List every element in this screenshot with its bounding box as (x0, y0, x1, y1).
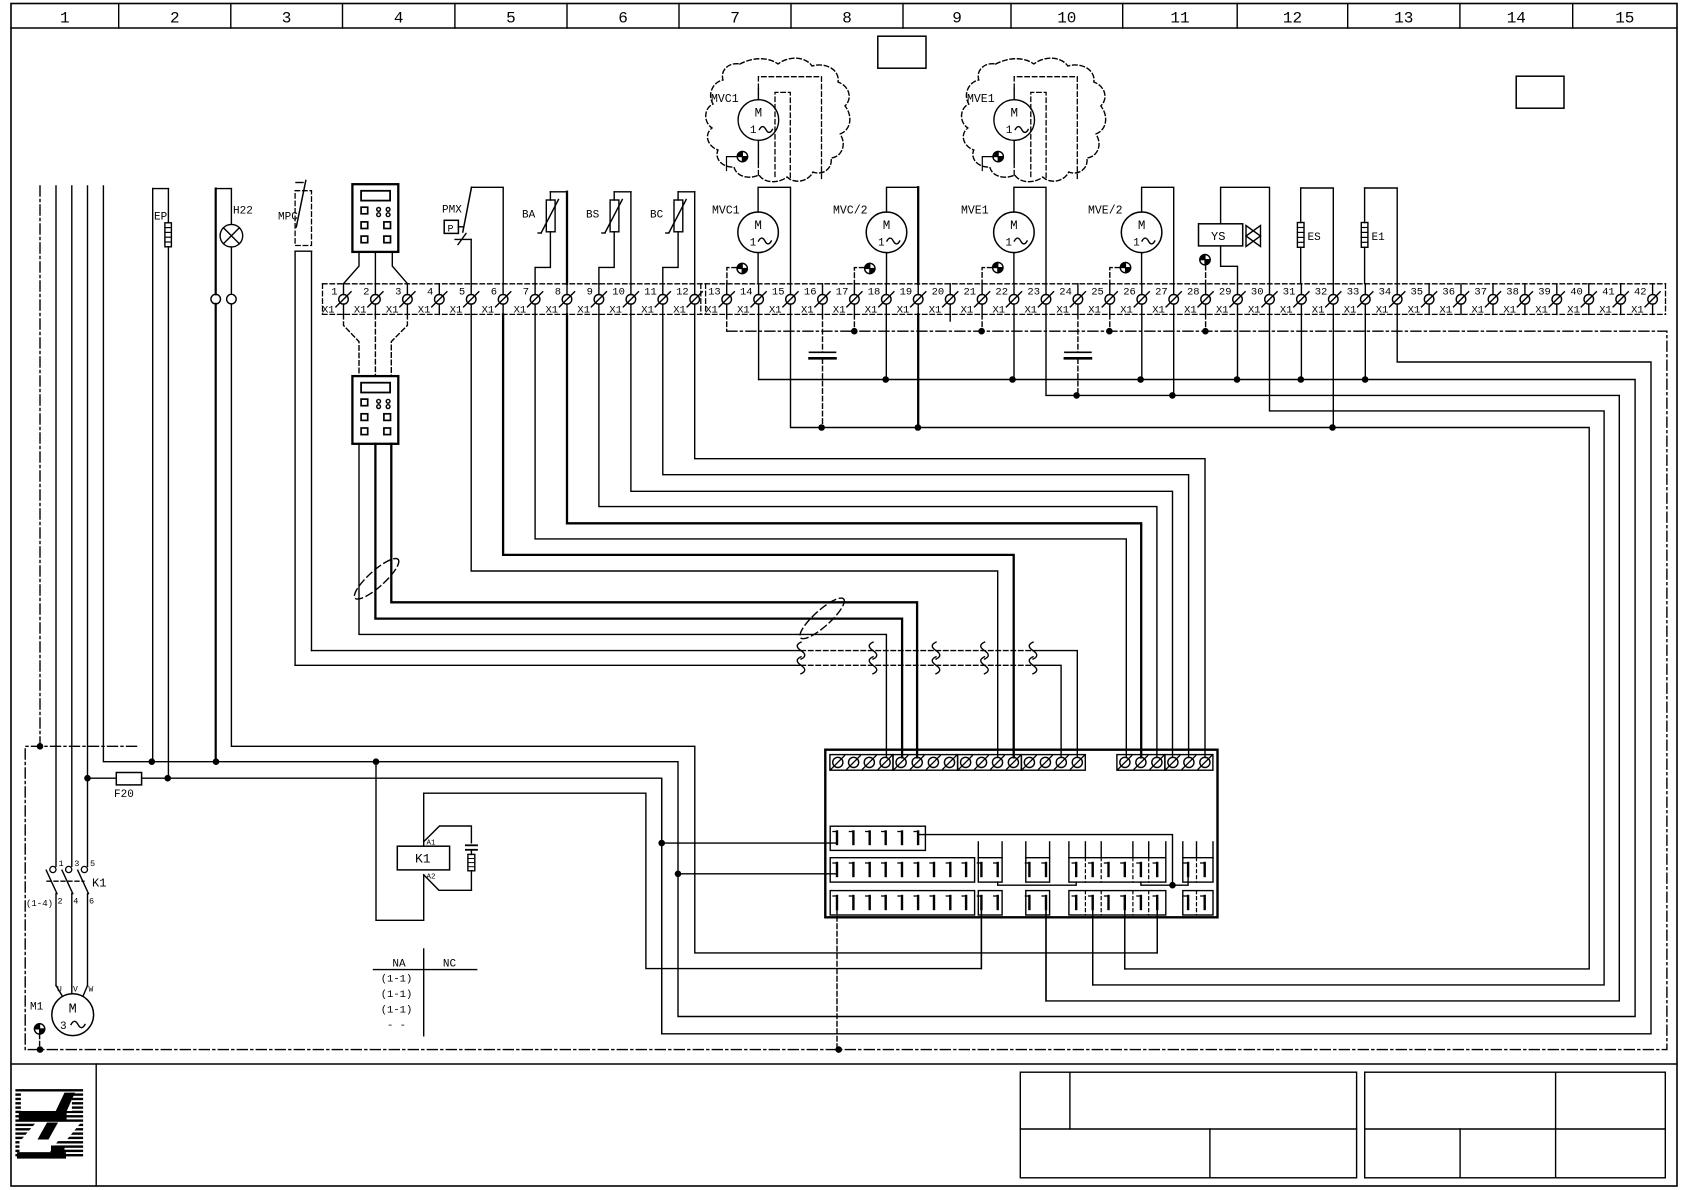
svg-text:X1: X1 (1248, 305, 1261, 317)
svg-text:1: 1 (1133, 237, 1140, 249)
svg-text:37: 37 (1474, 287, 1487, 299)
svg-text:10: 10 (1057, 10, 1076, 28)
svg-text:X1: X1 (1088, 305, 1101, 317)
svg-text:21: 21 (963, 287, 976, 299)
svg-text:13: 13 (1394, 10, 1413, 28)
svg-text:X1: X1 (641, 305, 654, 317)
svg-text:K1: K1 (415, 852, 431, 867)
svg-text:X1: X1 (1567, 305, 1580, 317)
svg-text:X1: X1 (418, 305, 431, 317)
svg-text:X1: X1 (769, 305, 782, 317)
svg-text:MVE1: MVE1 (961, 205, 989, 218)
svg-text:X1: X1 (833, 305, 846, 317)
svg-text:(1-4): (1-4) (26, 899, 53, 909)
svg-text:MVC1: MVC1 (712, 205, 740, 218)
svg-text:3: 3 (282, 10, 292, 28)
svg-text:36: 36 (1442, 287, 1455, 299)
svg-text:X1: X1 (961, 305, 974, 317)
svg-text:X1: X1 (354, 305, 367, 317)
svg-text:6: 6 (618, 10, 628, 28)
svg-text:X1: X1 (514, 305, 527, 317)
svg-text:A1: A1 (427, 840, 437, 848)
svg-text:31: 31 (1283, 287, 1296, 299)
svg-text:8: 8 (555, 287, 561, 299)
svg-text:12: 12 (1283, 10, 1302, 28)
svg-text:(1-1): (1-1) (381, 989, 413, 1001)
svg-text:X1: X1 (673, 305, 686, 317)
svg-text:M1: M1 (30, 1002, 44, 1014)
svg-text:MVC/2: MVC/2 (833, 205, 868, 218)
svg-text:MVE/2: MVE/2 (1088, 205, 1123, 218)
svg-text:1: 1 (1005, 237, 1012, 249)
svg-text:6: 6 (89, 897, 94, 907)
svg-text:X1: X1 (1344, 305, 1357, 317)
svg-text:6: 6 (491, 287, 497, 299)
svg-text:22: 22 (995, 287, 1008, 299)
svg-text:24: 24 (1059, 287, 1072, 299)
svg-text:2: 2 (363, 287, 369, 299)
svg-text:7: 7 (730, 10, 740, 28)
svg-text:33: 33 (1347, 287, 1360, 299)
svg-text:X1: X1 (482, 305, 495, 317)
svg-text:NA: NA (392, 959, 406, 971)
svg-text:- -: - - (387, 1020, 406, 1032)
svg-text:26: 26 (1123, 287, 1136, 299)
svg-text:X1: X1 (386, 305, 399, 317)
svg-text:10: 10 (612, 287, 625, 299)
svg-text:X1: X1 (1056, 305, 1069, 317)
svg-text:F20: F20 (114, 789, 134, 801)
svg-text:X1: X1 (1312, 305, 1325, 317)
svg-text:42: 42 (1634, 287, 1647, 299)
svg-text:11: 11 (644, 287, 657, 299)
svg-text:1: 1 (59, 859, 64, 869)
svg-text:M: M (1138, 219, 1146, 233)
svg-text:19: 19 (900, 287, 913, 299)
svg-text:X1: X1 (705, 305, 718, 317)
svg-text:BC: BC (650, 210, 664, 222)
svg-text:35: 35 (1410, 287, 1423, 299)
svg-text:13: 13 (708, 287, 721, 299)
svg-text:1: 1 (331, 287, 337, 299)
svg-text:NC: NC (443, 959, 457, 971)
svg-text:38: 38 (1506, 287, 1519, 299)
svg-text:X1: X1 (546, 305, 559, 317)
svg-text:X1: X1 (801, 305, 814, 317)
svg-text:X1: X1 (1216, 305, 1229, 317)
svg-text:U: U (57, 986, 62, 995)
svg-text:(1-1): (1-1) (381, 974, 413, 986)
svg-text:4: 4 (427, 287, 433, 299)
svg-text:1: 1 (60, 10, 70, 28)
svg-text:5: 5 (90, 859, 95, 869)
svg-text:M: M (754, 219, 762, 233)
svg-text:9: 9 (587, 287, 593, 299)
svg-text:12: 12 (676, 287, 689, 299)
svg-text:2: 2 (170, 10, 180, 28)
svg-text:BS: BS (586, 210, 600, 222)
svg-text:X1: X1 (1631, 305, 1644, 317)
svg-text:X1: X1 (897, 305, 910, 317)
svg-text:11: 11 (1170, 10, 1189, 28)
svg-text:MVE1: MVE1 (967, 93, 995, 106)
svg-text:X1: X1 (1120, 305, 1133, 317)
svg-text:40: 40 (1570, 287, 1583, 299)
svg-text:9: 9 (952, 10, 962, 28)
svg-text:4: 4 (394, 10, 404, 28)
svg-text:M: M (69, 1003, 77, 1018)
svg-text:H22: H22 (233, 206, 253, 218)
svg-text:X1: X1 (865, 305, 878, 317)
svg-text:1: 1 (750, 237, 757, 249)
svg-text:X1: X1 (929, 305, 942, 317)
svg-text:X1: X1 (1472, 305, 1485, 317)
svg-text:BA: BA (522, 210, 536, 222)
svg-text:X1: X1 (1376, 305, 1389, 317)
svg-text:14: 14 (1507, 10, 1526, 28)
svg-text:17: 17 (836, 287, 849, 299)
svg-text:4: 4 (73, 897, 78, 907)
svg-text:3: 3 (60, 1021, 67, 1033)
svg-text:41: 41 (1602, 287, 1615, 299)
svg-text:3: 3 (395, 287, 401, 299)
svg-text:7: 7 (523, 287, 529, 299)
svg-text:29: 29 (1219, 287, 1232, 299)
svg-text:14: 14 (740, 287, 753, 299)
svg-text:8: 8 (842, 10, 852, 28)
svg-text:34: 34 (1379, 287, 1392, 299)
svg-text:X1: X1 (1535, 305, 1548, 317)
svg-text:39: 39 (1538, 287, 1551, 299)
svg-text:X1: X1 (1280, 305, 1293, 317)
svg-text:X1: X1 (1152, 305, 1165, 317)
svg-text:(1-1): (1-1) (381, 1005, 413, 1017)
svg-text:X1: X1 (1440, 305, 1453, 317)
svg-text:YS: YS (1211, 230, 1225, 244)
svg-text:27: 27 (1155, 287, 1168, 299)
svg-text:5: 5 (506, 10, 516, 28)
svg-text:1: 1 (1006, 125, 1013, 137)
svg-text:32: 32 (1315, 287, 1328, 299)
svg-text:25: 25 (1091, 287, 1104, 299)
svg-text:X1: X1 (577, 305, 590, 317)
svg-text:20: 20 (932, 287, 945, 299)
svg-text:15: 15 (772, 287, 785, 299)
svg-text:W: W (89, 986, 94, 995)
svg-text:X1: X1 (993, 305, 1006, 317)
svg-text:X1: X1 (1025, 305, 1038, 317)
svg-text:X1: X1 (609, 305, 622, 317)
svg-text:1: 1 (878, 237, 885, 249)
svg-text:X1: X1 (450, 305, 463, 317)
svg-text:15: 15 (1615, 10, 1634, 28)
svg-text:18: 18 (868, 287, 881, 299)
svg-text:E1: E1 (1372, 232, 1386, 244)
svg-text:16: 16 (804, 287, 817, 299)
svg-text:30: 30 (1251, 287, 1264, 299)
svg-text:5: 5 (459, 287, 465, 299)
svg-text:23: 23 (1027, 287, 1040, 299)
svg-text:M: M (883, 219, 891, 233)
svg-text:M: M (1010, 219, 1018, 233)
svg-text:MVC1: MVC1 (711, 93, 739, 106)
svg-text:2: 2 (58, 897, 63, 907)
svg-text:M: M (755, 107, 763, 121)
svg-text:X1: X1 (1184, 305, 1197, 317)
svg-text:X1: X1 (1503, 305, 1516, 317)
svg-text:3: 3 (74, 859, 79, 869)
svg-text:K1: K1 (92, 877, 106, 891)
svg-text:X1: X1 (322, 305, 335, 317)
svg-text:A2: A2 (427, 873, 436, 881)
svg-text:X1: X1 (1599, 305, 1612, 317)
svg-text:X1: X1 (737, 305, 750, 317)
svg-text:ES: ES (1308, 232, 1322, 244)
svg-text:P: P (448, 225, 454, 236)
svg-text:1: 1 (750, 125, 757, 137)
svg-text:PMX: PMX (442, 205, 462, 217)
svg-text:28: 28 (1187, 287, 1200, 299)
svg-text:M: M (1010, 107, 1018, 121)
svg-text:EP: EP (154, 212, 168, 224)
svg-text:X1: X1 (1408, 305, 1421, 317)
